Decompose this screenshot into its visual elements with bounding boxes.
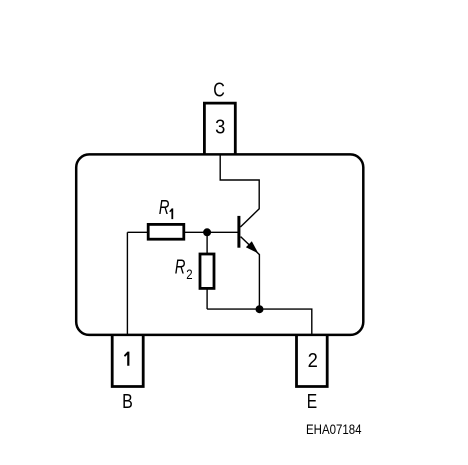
svg-text:2: 2 xyxy=(308,350,318,372)
svg-text:2: 2 xyxy=(186,267,192,282)
svg-text:R: R xyxy=(175,255,186,278)
svg-text:R: R xyxy=(159,196,170,219)
svg-text:C: C xyxy=(213,79,225,101)
svg-text:3: 3 xyxy=(215,117,225,139)
svg-text:EHA07184: EHA07184 xyxy=(306,421,362,437)
svg-text:E: E xyxy=(307,390,317,412)
svg-text:B: B xyxy=(122,390,133,412)
